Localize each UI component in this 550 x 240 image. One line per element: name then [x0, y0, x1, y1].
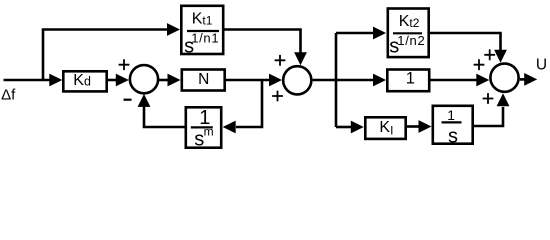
block Kt2 [388, 9, 429, 58]
wire Kt2 to S3 top [430, 33, 501, 51]
wire S1 to N [158, 79, 169, 82]
svg-text:1/n1: 1/n1 [191, 30, 219, 45]
arrowhead into Kd [49, 74, 62, 87]
block N [182, 70, 225, 91]
svg-text:s: s [448, 126, 458, 148]
arrowhead into N [168, 74, 181, 87]
block Kt1 [181, 6, 223, 54]
arrowhead into S3 bottom (points up) [497, 93, 510, 106]
summing junction S2 [283, 66, 311, 94]
sign plus S1 [119, 59, 130, 70]
svg-text:Δf: Δf [1, 87, 16, 104]
sign plus S3 left [474, 59, 485, 70]
fraction bar Kt2 [393, 32, 422, 34]
svg-text:1/n2: 1/n2 [397, 33, 425, 48]
arrowhead into S2 left [269, 74, 282, 87]
arrowhead into 1/s^m (points left) [223, 121, 236, 134]
wire branch to Kt2 [336, 32, 374, 35]
svg-text:N: N [198, 71, 209, 88]
arrowhead into S3 top (points down) [494, 50, 507, 63]
sign plus S2 left [272, 91, 283, 102]
summing junction S1 [130, 65, 158, 93]
wire 1/s^m to S1 bottom [144, 97, 185, 127]
wire KI to 1/s [407, 125, 420, 128]
arrowhead into S3 left [476, 74, 489, 87]
arrowhead into Kt1 [167, 23, 180, 36]
svg-text:U: U [536, 57, 547, 74]
svg-text:Kt1: Kt1 [192, 11, 213, 28]
sign minus S1 [124, 99, 132, 101]
summing junction S3 [490, 64, 518, 92]
arrowhead into block 1 [373, 74, 386, 87]
svg-text:Kd: Kd [73, 72, 91, 89]
wire 1/s to S3 bottom [474, 107, 503, 126]
wire Kd to sum S1 [108, 79, 118, 82]
wire S2 to block 1 [313, 79, 374, 82]
block 1/s^m [186, 107, 221, 147]
sign plus S2 top [275, 55, 286, 66]
wire Kt1 to S2 top [225, 30, 301, 55]
wire N to sum S2 [226, 79, 271, 82]
arrowhead into S1 left [116, 74, 129, 87]
block Kd [63, 71, 106, 91]
wire block 1 to S3 [431, 79, 479, 82]
arrowhead output U [524, 73, 537, 86]
block KI [365, 117, 405, 139]
arrowhead into S1 bottom (points up) [138, 94, 151, 107]
fraction bar 1/s [442, 121, 462, 123]
arrowhead into KI [351, 121, 364, 134]
arrowhead into Kt2 [373, 27, 386, 40]
wire branch to KI [336, 126, 352, 129]
node branch feedback tap [236, 80, 262, 127]
wire input line [4, 79, 53, 82]
block 1 [387, 70, 429, 92]
svg-text:1: 1 [406, 70, 415, 88]
sign plus S3 top [484, 49, 495, 60]
node branch right split vertical [335, 33, 338, 127]
fraction bar Kt1 [187, 30, 219, 32]
arrowhead into S2 top (points down) [294, 52, 307, 65]
wire S3 output [520, 78, 526, 81]
svg-text:Kt2: Kt2 [399, 13, 420, 30]
sign plus S3 bottom [483, 93, 494, 104]
block 1/s [433, 106, 473, 144]
svg-text:m: m [204, 125, 214, 139]
svg-text:1: 1 [447, 107, 455, 123]
fraction bar 1/s^m [191, 126, 213, 128]
node branch input split [43, 30, 168, 82]
arrowhead into 1/s [419, 120, 432, 133]
